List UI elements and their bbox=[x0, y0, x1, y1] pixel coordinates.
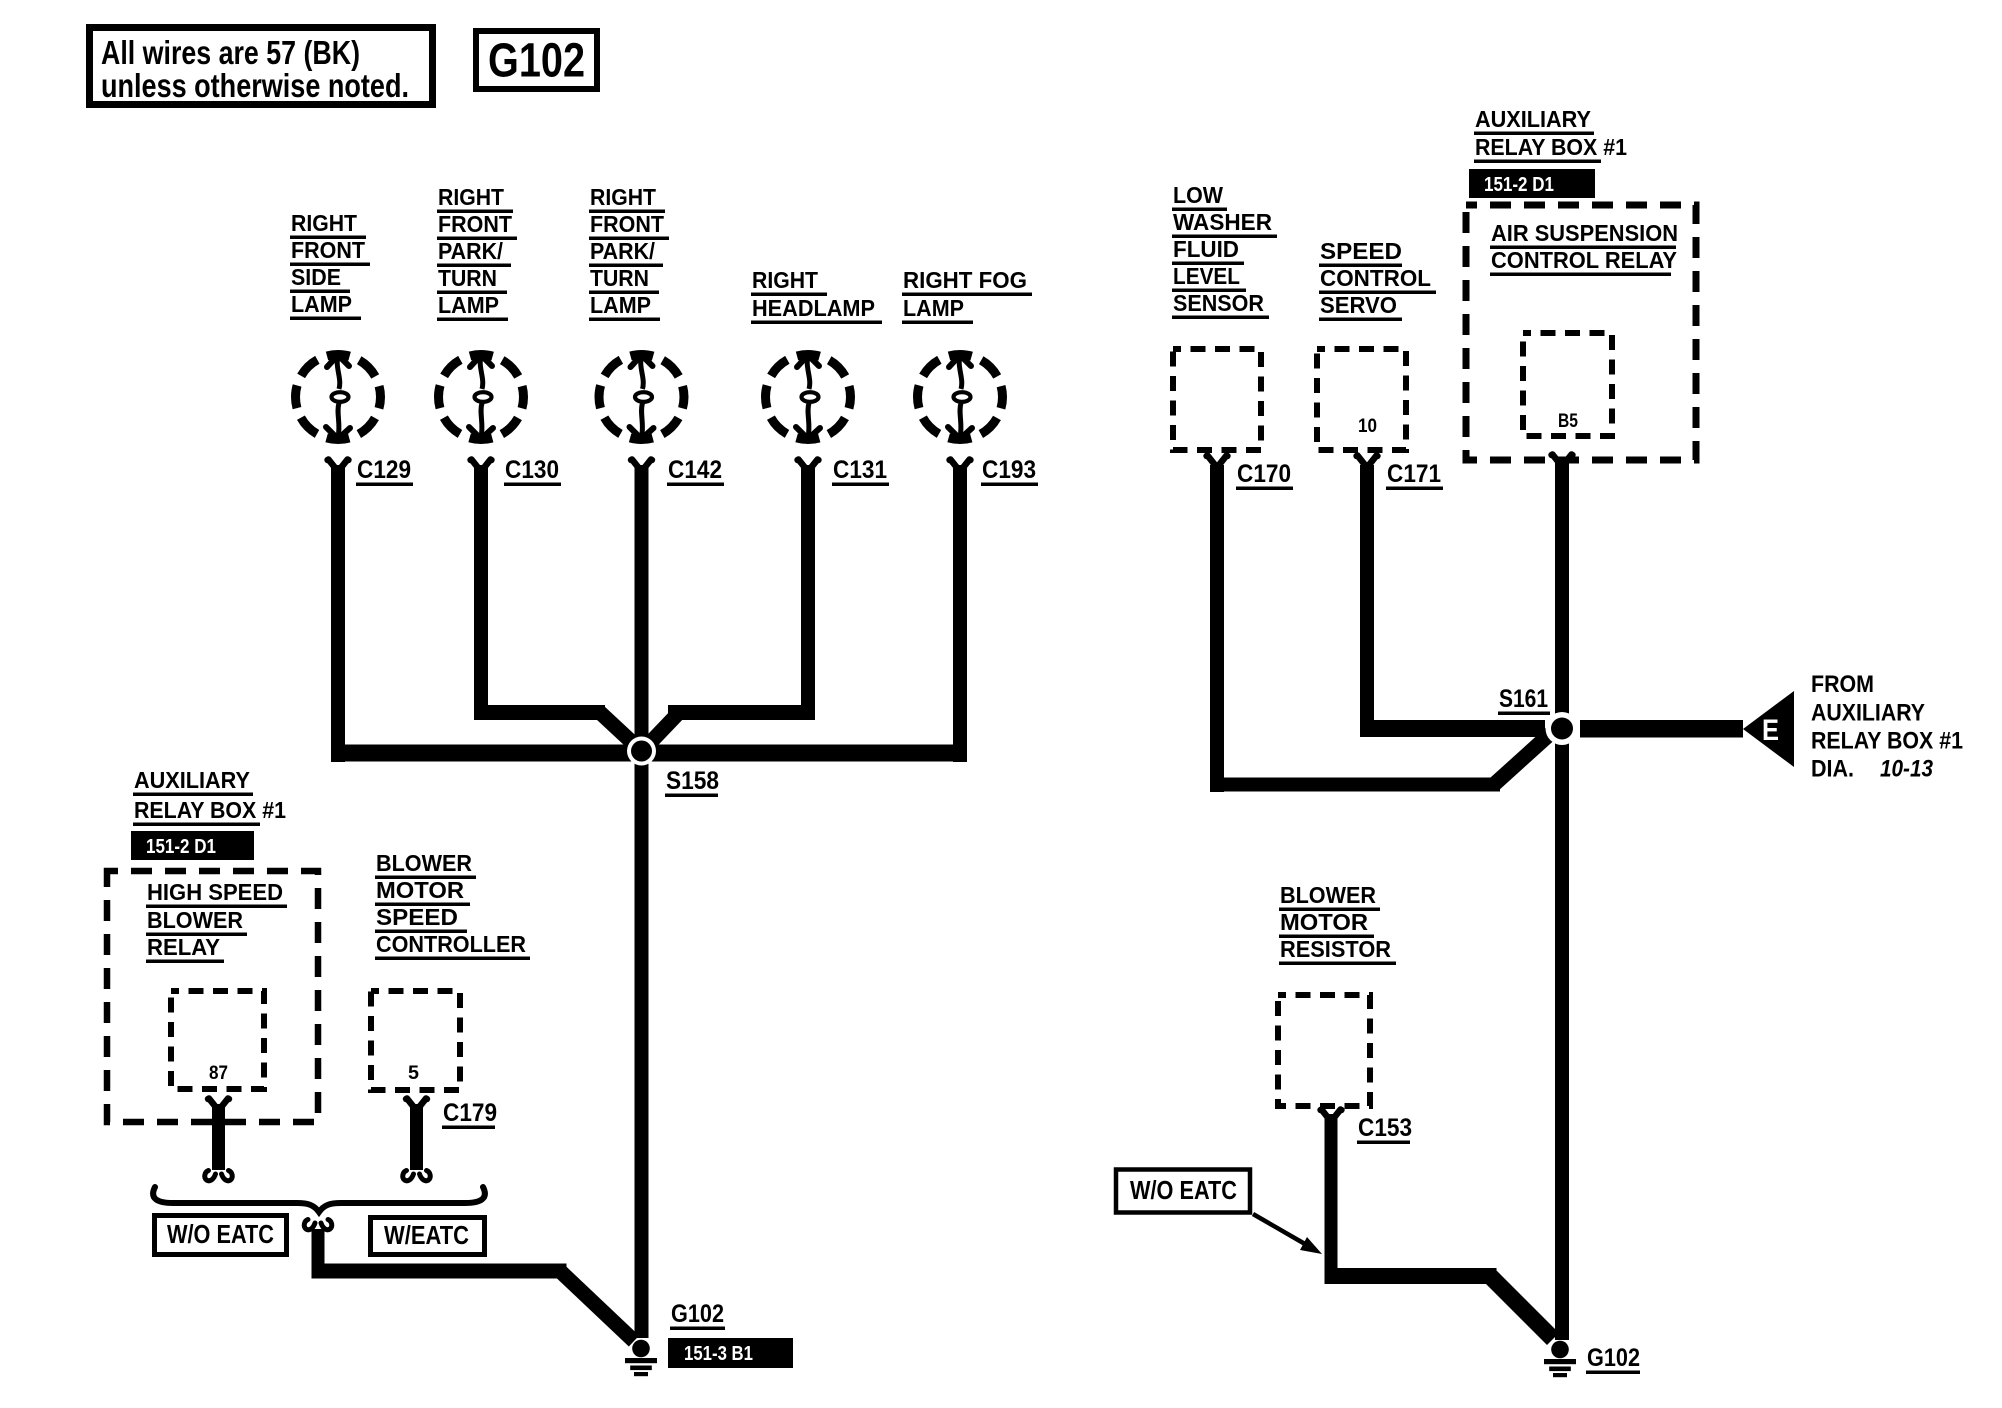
svg-text:unless otherwise noted.: unless otherwise noted. bbox=[101, 67, 409, 104]
junction node S161 bbox=[1546, 712, 1579, 745]
option box W/EATC bbox=[371, 1218, 485, 1255]
svg-text:DIA.: DIA. bbox=[1811, 756, 1854, 783]
svg-text:BLOWER: BLOWER bbox=[147, 907, 243, 933]
speed control servo dashed box bbox=[1317, 349, 1406, 450]
wire bus S161 to E arrow bbox=[1580, 720, 1743, 738]
option box W/O EATC right bbox=[1116, 1170, 1250, 1213]
off-page arrow E from auxiliary relay box 1 bbox=[1743, 691, 1794, 767]
svg-text:10-13: 10-13 bbox=[1880, 756, 1934, 783]
svg-text:G102: G102 bbox=[488, 35, 585, 88]
svg-text:FRONT: FRONT bbox=[438, 211, 512, 237]
wire C170 horizontal run bbox=[1210, 778, 1500, 792]
svg-text:RELAY BOX #1: RELAY BOX #1 bbox=[134, 797, 286, 823]
svg-text:FRONT: FRONT bbox=[590, 211, 664, 237]
svg-text:E: E bbox=[1762, 714, 1779, 747]
svg-text:PARK/: PARK/ bbox=[590, 238, 656, 264]
svg-text:W/O EATC: W/O EATC bbox=[1130, 1175, 1237, 1205]
low washer fluid level sensor dashed box bbox=[1173, 349, 1261, 450]
svg-text:5: 5 bbox=[408, 1063, 419, 1084]
wire C171 bus into S161 bbox=[1360, 720, 1545, 737]
svg-text:C193: C193 bbox=[982, 456, 1036, 484]
svg-text:FRONT: FRONT bbox=[291, 237, 365, 263]
svg-text:SPEED: SPEED bbox=[1320, 238, 1402, 264]
wire C129 to bus bbox=[331, 465, 345, 762]
connector below pin 87 bbox=[205, 1096, 232, 1111]
pointer arrow from W/O EATC bbox=[1253, 1214, 1305, 1244]
svg-text:87: 87 bbox=[209, 1063, 228, 1084]
wire B5 main vertical to G102 right bbox=[1555, 460, 1569, 1340]
wire lower bus C129 to C193 through S158 bbox=[331, 745, 967, 762]
svg-text:C179: C179 bbox=[443, 1099, 497, 1127]
svg-text:C170: C170 bbox=[1237, 460, 1291, 488]
wire upper bus right segment bbox=[668, 705, 815, 720]
note box: all wires are 57 BK bbox=[90, 28, 433, 105]
svg-text:BLOWER: BLOWER bbox=[1280, 882, 1376, 908]
wire from brace connector down bbox=[312, 1229, 325, 1272]
wire diagonal upper-right into S158 bbox=[647, 713, 679, 747]
connector C131 bbox=[794, 457, 821, 472]
connector C142 bbox=[628, 457, 655, 472]
air suspension control relay dashed box bbox=[1523, 333, 1612, 436]
svg-text:MOTOR: MOTOR bbox=[1280, 909, 1368, 935]
svg-text:AUXILIARY: AUXILIARY bbox=[134, 767, 250, 793]
lamp B5f right fog lamp bbox=[918, 355, 1003, 440]
auxiliary relay box 1 right dashed outline bbox=[1466, 205, 1696, 460]
svg-text:SPEED: SPEED bbox=[376, 904, 458, 930]
svg-text:LAMP: LAMP bbox=[291, 291, 352, 317]
svg-text:HIGH SPEED: HIGH SPEED bbox=[147, 879, 283, 905]
svg-text:10: 10 bbox=[1358, 416, 1377, 437]
wire C170 vertical bbox=[1210, 465, 1224, 792]
title box G102 bbox=[476, 31, 597, 89]
alternatives brace bbox=[153, 1187, 485, 1212]
svg-text:151-2 D1: 151-2 D1 bbox=[1484, 174, 1554, 196]
lamp B1 right front side lamp bbox=[296, 355, 381, 440]
connector below brace bbox=[304, 1220, 331, 1230]
auxiliary relay box 1 dashed outline bbox=[107, 871, 318, 1122]
svg-text:TURN: TURN bbox=[590, 265, 649, 291]
svg-text:LAMP: LAMP bbox=[903, 295, 964, 321]
grid ref tag 151-2 D1 right bbox=[1469, 169, 1595, 198]
svg-text:AUXILIARY: AUXILIARY bbox=[1811, 700, 1925, 727]
svg-text:RIGHT: RIGHT bbox=[590, 184, 656, 210]
svg-text:W/O EATC: W/O EATC bbox=[167, 1219, 274, 1249]
high speed blower relay dashed box bbox=[171, 991, 264, 1089]
svg-text:LAMP: LAMP bbox=[590, 292, 651, 318]
wire C153 horizontal run bbox=[1325, 1268, 1497, 1284]
grid ref tag 151-3 B1 bbox=[668, 1338, 793, 1368]
svg-text:RIGHT: RIGHT bbox=[752, 267, 818, 293]
wire diagonal upper-left into S158 bbox=[600, 713, 636, 747]
svg-text:AIR SUSPENSION: AIR SUSPENSION bbox=[1491, 220, 1678, 246]
svg-text:TURN: TURN bbox=[438, 265, 497, 291]
svg-text:G102: G102 bbox=[1587, 1344, 1640, 1372]
connector C153 bbox=[1317, 1107, 1344, 1122]
svg-text:151-3 B1: 151-3 B1 bbox=[684, 1343, 753, 1365]
wire C193 to bus bbox=[953, 465, 967, 762]
connector C129 bbox=[324, 457, 351, 472]
svg-text:FLUID: FLUID bbox=[1173, 236, 1239, 262]
svg-text:C130: C130 bbox=[505, 456, 559, 484]
svg-text:B5: B5 bbox=[1558, 411, 1578, 432]
svg-text:S161: S161 bbox=[1499, 685, 1548, 713]
svg-text:LAMP: LAMP bbox=[438, 292, 499, 318]
svg-text:LOW: LOW bbox=[1173, 182, 1223, 208]
svg-text:HEADLAMP: HEADLAMP bbox=[752, 295, 875, 321]
wire diagonal into left ground bbox=[560, 1271, 634, 1341]
wire C130 to upper bus bbox=[474, 465, 488, 720]
svg-text:RELAY BOX #1: RELAY BOX #1 bbox=[1475, 134, 1627, 160]
svg-text:All wires are 57 (BK): All wires are 57 (BK) bbox=[101, 34, 360, 71]
wire upper bus left segment bbox=[474, 705, 605, 720]
svg-text:SERVO: SERVO bbox=[1320, 292, 1397, 318]
svg-text:RIGHT: RIGHT bbox=[438, 184, 504, 210]
svg-text:FROM: FROM bbox=[1811, 671, 1874, 698]
svg-text:RESISTOR: RESISTOR bbox=[1280, 936, 1391, 962]
wire C170 diagonal into S161 bbox=[1494, 733, 1551, 785]
svg-text:MOTOR: MOTOR bbox=[376, 877, 464, 903]
svg-text:RELAY: RELAY bbox=[147, 934, 220, 960]
svg-text:AUXILIARY: AUXILIARY bbox=[1475, 106, 1591, 132]
svg-text:SIDE: SIDE bbox=[291, 264, 341, 290]
ground G102 left bbox=[625, 1340, 657, 1377]
lamp B3 right front park/turn lamp bbox=[599, 355, 684, 440]
svg-text:RELAY BOX #1: RELAY BOX #1 bbox=[1811, 728, 1963, 755]
connector C171 bbox=[1353, 453, 1380, 468]
svg-text:C131: C131 bbox=[833, 456, 887, 484]
svg-text:RIGHT: RIGHT bbox=[291, 210, 357, 236]
grid ref tag 151-2 D1 left bbox=[131, 831, 254, 860]
svg-text:CONTROL: CONTROL bbox=[1320, 265, 1431, 291]
svg-text:CONTROLLER: CONTROLLER bbox=[376, 931, 526, 957]
lamp B4 right headlamp bbox=[766, 355, 851, 440]
wire C171 vertical bbox=[1360, 465, 1374, 721]
svg-text:WASHER: WASHER bbox=[1173, 209, 1272, 235]
svg-text:PARK/: PARK/ bbox=[438, 238, 504, 264]
svg-text:C153: C153 bbox=[1358, 1114, 1412, 1142]
connector C130 bbox=[467, 457, 494, 472]
svg-text:G102: G102 bbox=[671, 1300, 724, 1328]
svg-text:S158: S158 bbox=[666, 767, 719, 795]
ground G102 right bbox=[1544, 1341, 1576, 1378]
wire C131 to upper bus bbox=[801, 465, 815, 720]
svg-text:CONTROL RELAY: CONTROL RELAY bbox=[1491, 247, 1677, 273]
svg-text:151-2 D1: 151-2 D1 bbox=[146, 836, 216, 858]
svg-text:LEVEL: LEVEL bbox=[1173, 263, 1240, 289]
connector C193 bbox=[946, 457, 973, 472]
blower motor resistor dashed box bbox=[1278, 995, 1370, 1106]
svg-text:C142: C142 bbox=[668, 456, 722, 484]
wire C153 diagonal into right ground bbox=[1490, 1276, 1553, 1339]
svg-text:C171: C171 bbox=[1387, 460, 1441, 488]
svg-text:RIGHT FOG: RIGHT FOG bbox=[903, 267, 1027, 293]
wire C142 main vertical to G102 bbox=[635, 465, 649, 1338]
svg-text:C129: C129 bbox=[357, 456, 411, 484]
blower motor speed controller dashed box bbox=[371, 991, 460, 1090]
svg-text:SENSOR: SENSOR bbox=[1173, 290, 1264, 316]
connector at pin B5 bbox=[1548, 452, 1575, 467]
junction node S158 bbox=[627, 737, 656, 766]
option box W/O EATC left bbox=[155, 1216, 287, 1255]
lamp B2 right front park/turn lamp bbox=[439, 355, 524, 440]
connector C170 bbox=[1203, 453, 1230, 468]
svg-text:W/EATC: W/EATC bbox=[384, 1220, 469, 1250]
connector C179 symbol bbox=[403, 1096, 430, 1111]
wire horizontal to left ground run bbox=[312, 1264, 567, 1279]
wire C153 vertical bbox=[1325, 1114, 1338, 1278]
svg-text:BLOWER: BLOWER bbox=[376, 850, 472, 876]
